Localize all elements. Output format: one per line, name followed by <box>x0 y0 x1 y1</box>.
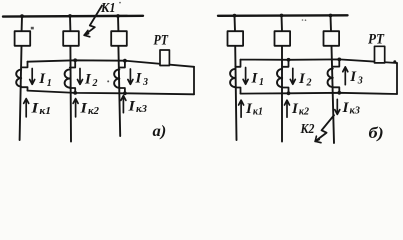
svg-text:I2: I2 <box>84 71 97 89</box>
svg-text:Iк1: Iк1 <box>245 101 263 118</box>
svg-text:Iк1: Iк1 <box>30 100 51 117</box>
svg-text:б): б) <box>369 125 384 142</box>
svg-text:I3: I3 <box>135 70 148 88</box>
svg-text:Iк2: Iк2 <box>79 100 99 117</box>
svg-text:К1: К1 <box>100 1 115 16</box>
svg-text:а): а) <box>153 123 167 140</box>
svg-text:РТ: РТ <box>368 32 385 48</box>
svg-text:К2: К2 <box>300 122 315 137</box>
svg-text:I1: I1 <box>251 70 264 88</box>
svg-text:Iк3: Iк3 <box>341 100 360 117</box>
svg-text:Iк2: Iк2 <box>291 101 309 118</box>
svg-text:I2: I2 <box>298 71 311 89</box>
svg-text:РТ: РТ <box>154 32 169 48</box>
svg-text:I3: I3 <box>349 69 362 87</box>
svg-text:I1: I1 <box>38 71 51 89</box>
svg-text:Iк3: Iк3 <box>127 98 147 115</box>
